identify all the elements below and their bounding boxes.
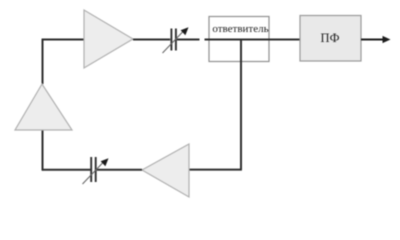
- capacitor C1 variable, top: [163, 27, 189, 53]
- wire top-left horizontal: [42, 39, 84, 41]
- capacitor C2 variable, bottom: [83, 157, 109, 184]
- wire left vertical upper: [42, 39, 44, 84]
- wire vertical drop from coupler: [240, 40, 242, 170]
- wire amp to capacitor: [133, 39, 170, 41]
- op-amp U3 bottom amplifier pointing left: [142, 144, 189, 197]
- wire amp to bottom capacitor: [97, 169, 142, 171]
- wire bottom capacitor to corner: [42, 169, 90, 171]
- wire left vertical lower: [42, 130, 44, 171]
- svg-text:ответвитель: ответвитель: [212, 23, 268, 35]
- svg-text:ПФ: ПФ: [321, 31, 340, 45]
- wire output with arrow: [361, 36, 391, 43]
- wire capacitor to gap: [177, 39, 200, 41]
- filter box PF: [300, 16, 361, 62]
- op-amp U1 top amplifier: [84, 10, 133, 68]
- op-amp U2 left amplifier pointing up: [15, 84, 72, 130]
- coupler box "ответвитель": [209, 17, 269, 62]
- wire gap to PF box: [205, 39, 301, 41]
- wire bottom-right horizontal: [189, 169, 242, 171]
